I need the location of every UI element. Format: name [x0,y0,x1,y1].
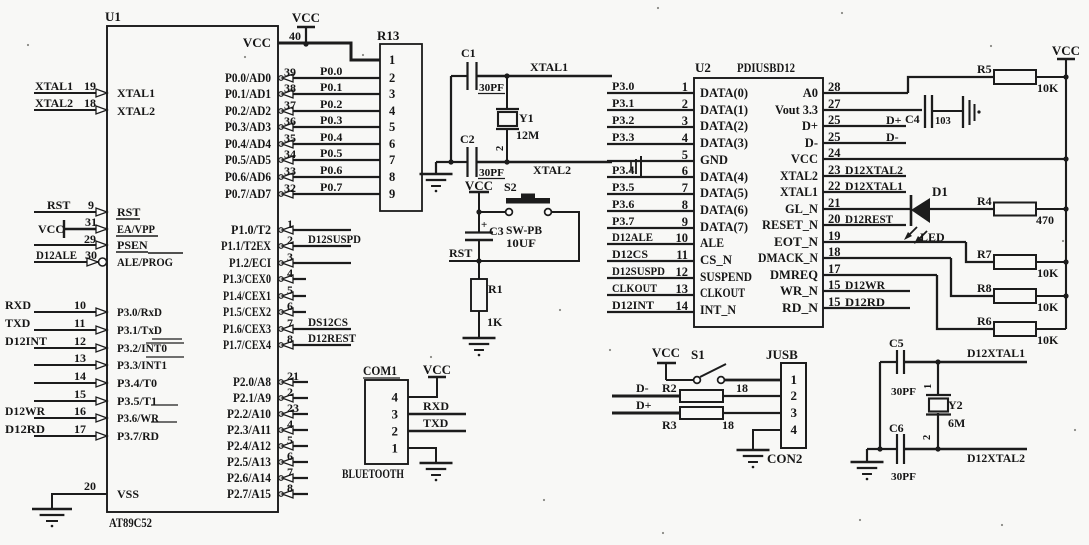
wire U2 pin 23 (XTAL2) [823,175,906,177]
resistor R8 10K [994,289,1036,303]
svg-text:15: 15 [828,295,841,309]
svg-text:R8: R8 [977,281,992,295]
svg-text:P0.3/AD3: P0.3/AD3 [225,120,271,134]
svg-text:P3.3: P3.3 [612,130,634,144]
svg-text:1: 1 [791,372,798,387]
svg-text:23: 23 [828,163,841,177]
svg-text:24: 24 [828,146,841,160]
svg-text:3: 3 [791,405,798,420]
wire JUSB pin 4 to ground [753,430,781,449]
svg-text:21: 21 [828,196,841,210]
wire P0.6 (pin 33) to R13 pin 8 [278,176,380,178]
svg-text:10K: 10K [1037,81,1059,95]
capacitor C6 30PF [867,448,897,450]
wire D12INT to U1 pin 12 [34,347,107,349]
svg-text:1: 1 [682,80,688,94]
svg-text:P0.3: P0.3 [320,113,342,127]
svg-text:EA/VPP: EA/VPP [117,222,155,236]
svg-text:D12RD: D12RD [845,295,885,309]
junction D12XTAL1/Y2 [935,359,940,364]
svg-text:2: 2 [922,435,933,440]
svg-text:29: 29 [84,232,96,246]
svg-text:19: 19 [84,79,96,93]
svg-text:TXD: TXD [423,416,449,430]
junction R5/VCC rail [1063,74,1068,79]
wire P1.4 (pin 5) [278,295,306,297]
wire U2 pin 22 (XTAL1) [823,191,906,193]
svg-text:INT_N: INT_N [700,303,736,317]
wire P0.7 (pin 32) to R13 pin 9 [278,193,380,195]
svg-text:4: 4 [287,417,293,431]
svg-text:WR_N: WR_N [780,284,818,298]
wire P3.0 to U2 pin 1 [607,92,694,94]
svg-text:P2.6/A14: P2.6/A14 [227,471,272,485]
svg-text:1: 1 [287,217,293,231]
svg-text:3: 3 [682,114,688,128]
wire P3.7 to U2 pin 9 [607,227,694,229]
wire D12RD to U1 pin 17 [34,435,107,437]
wire D12XTAL2 net [905,448,1027,450]
svg-text:D1: D1 [932,184,948,199]
svg-text:25: 25 [828,130,841,144]
svg-text:4: 4 [791,422,798,437]
ground below R1 [463,337,496,340]
wire U2 pin 15 (WR_N) [823,290,910,292]
svg-text:P0.1/AD1: P0.1/AD1 [225,87,271,101]
wire RST net [449,260,483,262]
wire U1 pin 40 VCC to R13 pin 1 [278,43,380,60]
svg-text:3: 3 [287,250,293,264]
svg-text:10K: 10K [1037,300,1059,314]
svg-text:20: 20 [828,212,841,226]
svg-text:D-: D- [805,136,818,150]
svg-text:P1.7/CEX4: P1.7/CEX4 [223,338,272,352]
junction rail/D12XTAL2 [877,446,882,451]
svg-text:7: 7 [389,153,395,167]
svg-text:P3.5/T1: P3.5/T1 [117,394,157,408]
svg-text:P0.0: P0.0 [320,64,342,78]
svg-text:Y2: Y2 [948,398,963,412]
svg-text:DATA(5): DATA(5) [700,186,748,200]
wire P2.4 (pin 25) [278,445,308,447]
svg-text:D12SUSPD: D12SUSPD [612,264,665,278]
wire to U1 pin 29 (PSEN) [34,244,107,246]
svg-text:5: 5 [287,283,293,297]
svg-text:R6: R6 [977,314,992,328]
svg-text:2: 2 [791,388,798,403]
svg-text:P1.1/T2EX: P1.1/T2EX [221,239,271,253]
svg-text:33: 33 [284,164,296,178]
wire U2 pin 27 (Vout 3.3) [823,109,922,111]
svg-text:10UF: 10UF [506,236,536,250]
svg-text:1: 1 [923,384,934,389]
svg-text:28: 28 [828,80,841,94]
svg-text:GL_N: GL_N [785,202,818,216]
svg-text:20: 20 [84,479,96,493]
svg-text:DATA(2): DATA(2) [700,119,748,133]
svg-text:D12XTAL2: D12XTAL2 [845,163,903,177]
junction XTAL1/Y1 [504,73,509,78]
svg-text:D-: D- [886,130,899,144]
svg-text:7: 7 [287,316,293,330]
svg-text:9: 9 [389,187,395,201]
svg-text:SUSPEND: SUSPEND [700,270,752,284]
svg-text:VCC: VCC [243,35,271,50]
wire A0 row step up to R5 [908,77,994,93]
svg-text:DATA(6): DATA(6) [700,203,748,217]
svg-text:CS_N: CS_N [700,253,732,267]
svg-text:34: 34 [284,147,296,161]
svg-text:RESET_N: RESET_N [762,218,818,232]
wire S2 to RST net [483,212,579,261]
wire P0.3 (pin 36) to R13 pin 5 [278,126,380,128]
junction rail/XTAL2 [448,159,453,164]
svg-text:D12ALE: D12ALE [612,230,653,244]
svg-text:BLUETOOTH: BLUETOOTH [342,467,404,481]
VCC power symbol at pin 40 [297,26,315,29]
svg-text:CLKOUT: CLKOUT [700,286,746,300]
svg-text:18: 18 [84,96,96,110]
ground at COM1 [420,462,453,465]
svg-text:P3.2: P3.2 [612,113,634,127]
svg-text:D12REST: D12REST [845,212,893,226]
svg-text:P3.4/T0: P3.4/T0 [117,376,157,390]
svg-text:11: 11 [74,316,85,330]
svg-text:P0.5: P0.5 [320,146,342,160]
svg-text:40: 40 [289,29,301,43]
svg-text:S1: S1 [691,347,705,362]
svg-text:4: 4 [389,104,396,118]
svg-text:D12SUSPD: D12SUSPD [308,232,361,246]
svg-text:P2.0/A8: P2.0/A8 [233,375,271,389]
capacitor C1 [451,75,467,77]
svg-text:DATA(0): DATA(0) [700,86,748,100]
svg-text:30: 30 [85,248,97,262]
svg-text:15: 15 [74,387,86,401]
svg-text:3: 3 [389,87,395,101]
svg-text:C3: C3 [489,224,504,238]
wire P3.6 to U2 pin 8 [607,210,694,212]
junction XTAL2/Y1 [504,159,509,164]
svg-text:P3.5: P3.5 [612,180,634,194]
svg-text:3: 3 [392,407,399,422]
svg-text:17: 17 [74,422,86,436]
wire D+ net [612,412,680,415]
IC U1 AT89C52 body [107,26,278,512]
wire P3 pin 15 to U1 pin 15 [34,400,107,402]
svg-text:VSS: VSS [117,487,139,501]
left rail of C5 C6 [879,362,881,449]
wire P2.2 (pin 23) [278,413,308,415]
svg-text:470: 470 [1036,213,1054,227]
svg-text:18: 18 [828,245,841,259]
svg-text:DS12CS: DS12CS [308,315,348,329]
svg-text:D12REST: D12REST [308,331,356,345]
wire D12ALE to U2 pin 10 [607,243,694,245]
capacitor C2 [451,161,467,163]
svg-text:P0.1: P0.1 [320,80,342,94]
svg-text:VCC: VCC [423,362,451,377]
wire DMREQ to R6 [937,275,994,329]
svg-text:12: 12 [676,265,689,279]
wire XTAL1 net [477,75,612,77]
wire P2.1 (pin 22) [278,397,308,399]
wire XTAL1 to U1 pin 19 [34,92,107,94]
svg-text:6: 6 [389,137,395,151]
ground at C5 C6 [866,449,868,461]
svg-text:C6: C6 [889,421,904,435]
junction R8/VCC rail [1063,293,1068,298]
svg-text:D-: D- [636,381,649,395]
wire P1.3 (pin 4) [278,278,306,280]
svg-text:P2.4/A12: P2.4/A12 [227,439,271,453]
svg-text:+: + [481,219,487,231]
connector JUSB [781,363,806,448]
svg-text:JUSB: JUSB [766,347,798,362]
svg-text:P3.7: P3.7 [612,214,634,228]
svg-text:P1.6/CEX3: P1.6/CEX3 [223,322,271,336]
wire XTAL2 to U1 pin 18 [34,109,107,111]
svg-text:XTAL2: XTAL2 [780,169,818,183]
wire U2 pin 24 (VCC) [823,158,1066,160]
svg-text:2: 2 [389,71,395,85]
node: left rail of crystal caps [450,76,452,162]
connector COM1 [365,380,408,464]
junction C6/Y2 [935,446,940,451]
svg-text:103: 103 [935,116,951,127]
svg-text:35: 35 [284,131,296,145]
svg-text:Y1: Y1 [519,111,534,125]
wire P1.6 (pin 7) net DS12CS [278,328,351,330]
svg-text:P3.1: P3.1 [612,96,634,110]
svg-text:39: 39 [284,65,296,79]
wire U2 pin 25 (D+) [823,125,906,127]
LED arrows [907,227,917,237]
svg-text:P1.2/ECI: P1.2/ECI [229,256,271,270]
wire P2.7 (pin 28) [278,493,308,495]
svg-text:C2: C2 [460,132,475,146]
svg-text:21: 21 [287,369,299,383]
svg-text:R3: R3 [662,418,677,432]
svg-text:XTAL1: XTAL1 [117,86,155,100]
svg-text:30PF: 30PF [891,386,916,398]
VCC stub at U1 pin 31 (EA/VPP) [64,228,107,230]
svg-text:R7: R7 [977,247,992,261]
svg-text:9: 9 [88,198,94,212]
svg-text:DATA(1): DATA(1) [700,103,748,117]
svg-text:19: 19 [828,229,841,243]
svg-text:TXD: TXD [5,316,31,330]
wire D12XTAL1 net [905,361,1027,363]
wire D12ALE to U1 pin 30 (ALE) [34,261,107,263]
svg-text:LED: LED [920,230,945,244]
wire GND to U2 pin 5 [607,160,694,162]
resistor R4 470 [994,203,1036,216]
wire COM1 pin 1 to ground [408,448,436,462]
svg-text:P0.7: P0.7 [320,180,342,194]
svg-text:P0.6: P0.6 [320,163,342,177]
svg-text:D12WR: D12WR [5,404,45,418]
junction R4/VCC rail [1063,206,1068,211]
svg-text:D12WR: D12WR [845,278,885,292]
junction RST/R1 [476,258,481,263]
svg-text:COM1: COM1 [363,363,397,378]
svg-text:P2.2/A10: P2.2/A10 [227,407,271,421]
ground symbol after C4 [962,96,964,128]
wire P3.4 to U2 pin 6 [607,176,694,178]
svg-text:C4: C4 [905,112,920,126]
svg-text:30PF: 30PF [891,471,916,483]
wire P3.1 to U2 pin 2 [607,109,694,111]
wire P0.2 (pin 37) to R13 pin 4 [278,110,380,112]
resistor R5 10K [994,70,1036,84]
svg-text:XTAL2: XTAL2 [533,163,571,177]
wire P0.1 (pin 38) to R13 pin 3 [278,93,380,95]
wire P0.0 (pin 39) to R13 pin 2 [278,77,380,79]
svg-text:8: 8 [682,198,688,212]
svg-text:12M: 12M [516,128,539,142]
svg-text:D12ALE: D12ALE [36,248,77,262]
svg-text:6: 6 [682,164,688,178]
svg-text:16: 16 [74,404,86,418]
junction VCC row / rail [1063,156,1068,161]
svg-text:VCC: VCC [791,152,818,166]
switch S2 SW-PB [479,211,505,213]
svg-text:RST: RST [449,246,472,260]
svg-text:SW-PB: SW-PB [506,223,542,237]
svg-text:1: 1 [392,441,399,456]
junction R7/VCC rail [1063,259,1068,264]
svg-text:D12XTAL1: D12XTAL1 [967,346,1025,360]
wire S1 to JUSB pin 1 [725,379,782,382]
ground at U1 VSS [32,508,72,511]
svg-text:5: 5 [389,120,395,134]
svg-text:8: 8 [287,481,293,495]
svg-text:R1: R1 [488,282,503,296]
svg-text:A0: A0 [803,86,818,100]
wire D12WR to U1 pin 16 [34,417,107,419]
wire U2 pin 28 (A0) [823,92,908,94]
svg-text:D12XTAL2: D12XTAL2 [967,451,1025,465]
svg-text:P0.4/AD4: P0.4/AD4 [225,137,272,151]
svg-text:RD_N: RD_N [782,301,818,315]
resistor R1 1K [478,261,480,279]
wire D12INT to U2 pin 14 [607,311,694,313]
svg-text:P2.1/A9: P2.1/A9 [233,391,271,405]
svg-text:XTAL2: XTAL2 [35,96,73,110]
VCC power symbol at COM1 [428,376,446,378]
svg-text:2: 2 [682,97,688,111]
svg-text:23: 23 [287,401,299,415]
svg-text:37: 37 [284,98,296,112]
wire P3 pin 14 to U1 pin 14 [34,382,107,384]
svg-text:P3.0: P3.0 [612,79,634,93]
svg-text:R2: R2 [662,381,677,395]
wire R2 to JUSB pin 2 [723,395,781,397]
svg-text:RST: RST [47,198,70,212]
wire U2 pin 20 (RESET_N) [823,224,906,226]
svg-text:9: 9 [682,215,688,229]
resistor R2 [680,390,723,402]
svg-text:ALE/PROG: ALE/PROG [117,255,173,269]
wire U2 pin 19 (EOT_N) [823,241,966,243]
svg-text:8: 8 [287,332,293,346]
wire U2 pin 18 (DMACK_N) [823,257,951,259]
svg-text:P0.6/AD6: P0.6/AD6 [225,170,271,184]
svg-text:P2.5/A13: P2.5/A13 [227,455,271,469]
svg-text:U1: U1 [105,9,121,24]
svg-text:XTAL2: XTAL2 [117,104,155,118]
capacitor C3 10UF [478,212,480,232]
svg-text:31: 31 [85,215,97,229]
svg-text:12: 12 [74,334,86,348]
svg-text:RXD: RXD [423,399,449,413]
svg-text:1K: 1K [487,315,503,329]
wire EOT_N to R7 [966,242,994,262]
wire P0.4 (pin 35) to R13 pin 6 [278,143,380,145]
svg-text:P1.5/CEX2: P1.5/CEX2 [223,305,271,319]
crystal Y1 12M [506,76,508,109]
mini ground on U2 pin 5 [640,156,642,178]
svg-text:11: 11 [676,248,688,262]
crystal Y2 6M [937,362,939,396]
wire P1.1 (pin 2) net D12SUSPD [278,245,351,247]
svg-text:P2.7/A15: P2.7/A15 [227,487,271,501]
wire DMACK_N to R8 [951,258,994,296]
svg-text:8: 8 [389,170,395,184]
svg-text:VCC: VCC [292,10,320,25]
wire TXD to U1 pin 11 [34,329,107,331]
resistor R3 [680,407,723,419]
svg-text:P0.2/AD2: P0.2/AD2 [225,104,271,118]
wire RST to U1 pin 9 [34,211,107,213]
wire rail to ground [436,161,451,163]
svg-text:D12CS: D12CS [612,247,648,261]
svg-text:2: 2 [287,233,293,247]
wire P0.5 (pin 34) to R13 pin 7 [278,159,380,161]
svg-text:XTAL1: XTAL1 [780,185,818,199]
svg-text:6: 6 [287,299,293,313]
svg-text:7: 7 [287,465,293,479]
junction VCC/C3/S2 [476,209,481,214]
svg-text:25: 25 [828,113,841,127]
svg-text:18: 18 [722,418,734,432]
svg-text:2: 2 [287,385,293,399]
svg-text:C5: C5 [889,336,904,350]
wire CLKOUT to U2 pin 13 [607,294,694,296]
svg-text:7: 7 [682,181,688,195]
svg-text:DATA(7): DATA(7) [700,220,748,234]
svg-text:P1.4/CEX1: P1.4/CEX1 [223,289,271,303]
svg-text:DATA(4): DATA(4) [700,170,748,184]
LED D1 [910,195,913,226]
wire U2 pin 25 (D-) [823,142,906,144]
svg-text:XTAL1: XTAL1 [35,79,73,93]
wire D12CS to U2 pin 11 [607,260,694,262]
svg-text:P0.4: P0.4 [320,130,342,144]
svg-text:Vout 3.3: Vout 3.3 [775,103,818,117]
IC U2 PDIUSBD12 body [694,78,823,327]
svg-text:5: 5 [682,148,688,162]
svg-text:2: 2 [392,424,399,439]
svg-text:P0.7/AD7: P0.7/AD7 [225,187,271,201]
wire P2.6 (pin 27) [278,477,308,479]
wire P2.3 (pin 24) [278,429,308,431]
svg-text:4: 4 [682,131,689,145]
scan noise speckle [244,56,246,58]
svg-text:P3.3/INT1: P3.3/INT1 [117,358,167,372]
svg-text:P1.0/T2: P1.0/T2 [231,223,271,237]
